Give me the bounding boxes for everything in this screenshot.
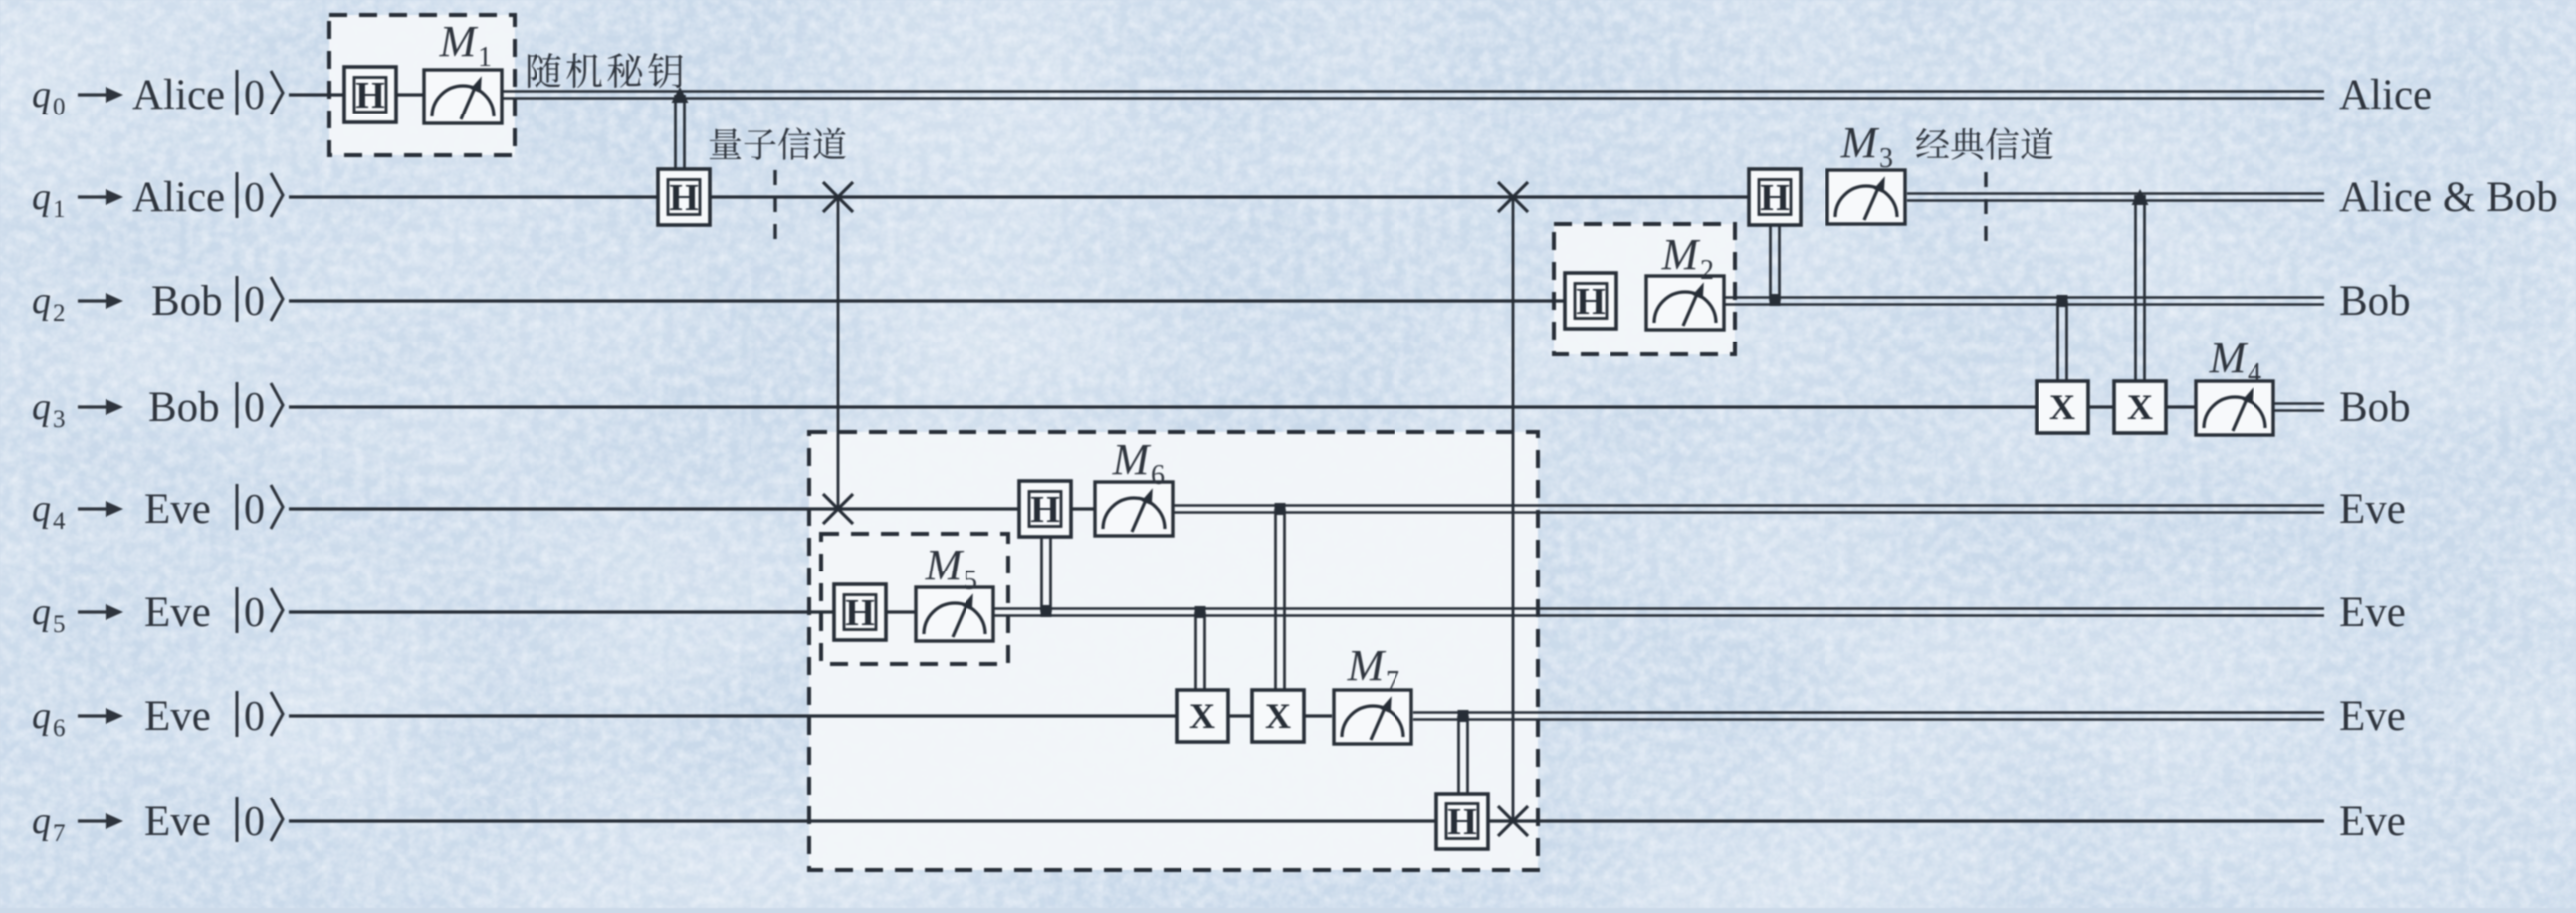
svg-text:H: H [669, 177, 699, 219]
wire q4 quantum segment [289, 507, 1096, 510]
wire q1 quantum segment [289, 195, 1749, 198]
svg-text:Eve: Eve [144, 799, 211, 845]
dashed box: Alice state preparation M1 [329, 15, 515, 155]
svg-text:7: 7 [53, 820, 66, 847]
svg-text:H: H [1576, 281, 1606, 323]
ket |0> on q4 [237, 484, 283, 533]
classical control wire q1 to X2 on q3 [2132, 189, 2149, 382]
measurement meter M4 on q3 [2196, 381, 2273, 435]
dashed box: Eve intercept-resend block [809, 432, 1538, 870]
ket |0> on q3 [237, 382, 283, 431]
svg-text:q: q [32, 695, 51, 737]
swap gate terminal on q1 (second swap) [1498, 182, 1528, 212]
classical control wire M6/H(q4) to q5 [1041, 537, 1052, 617]
swap gate terminal on q7 (second swap) [1498, 806, 1528, 836]
svg-text:Eve: Eve [2339, 799, 2406, 845]
svg-text:0: 0 [53, 94, 66, 120]
svg-text:0: 0 [244, 590, 265, 636]
input arrow q0 [78, 87, 123, 103]
X gate on q6 (first) [1177, 690, 1228, 742]
svg-text:0: 0 [244, 175, 265, 221]
svg-text:Eve: Eve [2339, 693, 2406, 740]
swap connector q1-q7 [1512, 197, 1515, 821]
svg-text:2: 2 [53, 300, 66, 327]
svg-text:M: M [439, 17, 479, 66]
classical control wire q6 to H on q7 [1459, 716, 1468, 797]
svg-text:H: H [1030, 489, 1060, 531]
swap connector q1-q4 [837, 197, 840, 509]
ket |0> on q2 [237, 276, 283, 325]
swap gate terminal on q1 (first swap) [823, 182, 853, 212]
svg-text:Alice: Alice [132, 174, 225, 221]
svg-text:H: H [1760, 177, 1790, 219]
svg-text:Alice: Alice [132, 72, 225, 118]
svg-text:6: 6 [1151, 460, 1165, 491]
measurement meter M5 on q5 [916, 587, 993, 641]
svg-text:0: 0 [244, 73, 265, 118]
svg-text:q: q [32, 591, 51, 633]
svg-text:M: M [925, 541, 965, 589]
svg-text:4: 4 [53, 508, 66, 535]
label: quantum channel (Chinese) [710, 127, 846, 159]
svg-text:0: 0 [244, 799, 265, 845]
svg-text:Alice & Bob: Alice & Bob [2339, 174, 2558, 221]
classically controlled X gate on q3 (first) [2037, 381, 2088, 433]
input arrow q3 [78, 399, 123, 415]
H gate on q0 [344, 67, 396, 122]
svg-text:3: 3 [1879, 143, 1893, 174]
svg-text:q: q [32, 280, 51, 322]
svg-text:4: 4 [2248, 358, 2261, 389]
wire q6 quantum segment [289, 714, 1332, 717]
H gate on q1 (Bob side) [1749, 169, 1801, 225]
svg-text:q: q [32, 176, 51, 218]
classical control wire M1 to H on q1 [672, 87, 689, 171]
svg-text:q: q [32, 74, 51, 115]
wire q3 classical segment after M4 [2272, 404, 2324, 411]
wire q7 quantum segment [289, 819, 2324, 822]
classical control wire q2 to X on q3 [2058, 301, 2067, 382]
classically controlled X gate on q3 (second) [2114, 381, 2166, 433]
svg-text:7: 7 [1386, 666, 1399, 697]
svg-text:Eve: Eve [2339, 486, 2406, 533]
input arrow q6 [78, 708, 123, 724]
measurement meter M3 on q1 [1827, 170, 1905, 224]
svg-text:2: 2 [1700, 255, 1714, 286]
svg-text:Eve: Eve [144, 693, 211, 740]
svg-text:5: 5 [964, 566, 977, 596]
dashed box: Eve measurement M5 [821, 534, 1008, 664]
classical control wire q4 to X2 on q6 [1276, 509, 1285, 690]
svg-text:q: q [32, 386, 51, 428]
wire q3 quantum segment [289, 405, 2196, 408]
ket |0> on q1 [237, 172, 283, 221]
input arrow q2 [78, 293, 123, 309]
svg-text:X: X [2049, 387, 2075, 427]
svg-text:0: 0 [244, 487, 265, 533]
svg-text:H: H [845, 592, 875, 634]
wire q5 classical segment after M5 [994, 609, 2324, 616]
svg-text:X: X [1189, 696, 1215, 736]
svg-text:0: 0 [244, 279, 265, 325]
ket |0> on q7 [237, 797, 283, 845]
wire q0 quantum segment [289, 93, 425, 96]
label: random secret key (Chinese) [528, 53, 683, 88]
input arrow q7 [78, 813, 123, 829]
ket |0> on q0 [237, 70, 283, 118]
wire q2 quantum segment [289, 299, 1564, 302]
svg-text:M: M [1112, 435, 1152, 484]
svg-text:Bob: Bob [148, 384, 220, 431]
svg-text:0: 0 [244, 385, 265, 431]
classical control wire q5 to X on q6 [1196, 612, 1205, 690]
input arrow q5 [78, 604, 123, 620]
wire q6 classical segment after M7 [1413, 713, 2324, 720]
wire q1 classical segment after M3 [1907, 194, 2324, 201]
svg-text:Bob: Bob [2339, 384, 2411, 431]
svg-text:q: q [32, 800, 51, 842]
measurement meter M7 on q6 [1334, 690, 1411, 744]
svg-text:1: 1 [53, 196, 66, 223]
H gate on q5 (Eve) [834, 584, 886, 640]
svg-text:1: 1 [478, 42, 492, 73]
classical control wire H(q1) to q2 [1770, 225, 1781, 306]
svg-text:6: 6 [53, 715, 66, 742]
wire q4 classical segment after M6 [1173, 506, 2324, 513]
dashed divider: classical channel boundary [1984, 172, 1987, 244]
svg-text:X: X [2127, 387, 2153, 427]
dashed box: Bob measurement M2 [1554, 224, 1735, 354]
ket |0> on q6 [237, 691, 283, 740]
controlled H gate on q1 [658, 169, 710, 225]
svg-text:M: M [2209, 334, 2249, 382]
svg-text:H: H [355, 75, 385, 116]
X gate on q6 (second) [1252, 690, 1304, 742]
measurement meter M1 on q0 [424, 70, 502, 123]
svg-text:X: X [1265, 696, 1291, 736]
dashed divider: quantum channel boundary [773, 170, 776, 251]
svg-text:M: M [1661, 230, 1701, 279]
measurement meter M6 on q4 [1095, 482, 1173, 536]
input arrow q1 [78, 189, 123, 205]
svg-text:M: M [1840, 118, 1880, 167]
H gate on q2 (Bob) [1565, 273, 1616, 329]
wire q0 classical segment (random key) [503, 92, 2324, 99]
input arrow q4 [78, 501, 123, 517]
svg-text:H: H [1447, 801, 1477, 843]
svg-text:0: 0 [244, 694, 265, 740]
swap gate terminal on q4 (first swap) [823, 494, 853, 524]
svg-text:3: 3 [53, 406, 66, 433]
H gate on q4 (Eve) [1019, 481, 1071, 537]
measurement meter M2 on q2 [1646, 276, 1724, 330]
svg-text:Alice: Alice [2339, 72, 2432, 118]
svg-text:q: q [32, 488, 51, 530]
ket |0> on q5 [237, 587, 283, 636]
svg-text:Eve: Eve [144, 589, 211, 636]
wire q5 quantum segment [289, 610, 915, 613]
svg-text:Bob: Bob [151, 278, 223, 325]
label: classical channel (Chinese) [1916, 127, 2053, 159]
svg-text:Bob: Bob [2339, 278, 2411, 325]
wire q2 classical segment after M2 [1725, 298, 2324, 305]
svg-text:Eve: Eve [144, 486, 211, 533]
svg-text:M: M [1347, 641, 1387, 690]
svg-text:5: 5 [53, 611, 66, 638]
controlled H gate on q7 [1436, 794, 1488, 849]
svg-text:Eve: Eve [2339, 589, 2406, 636]
